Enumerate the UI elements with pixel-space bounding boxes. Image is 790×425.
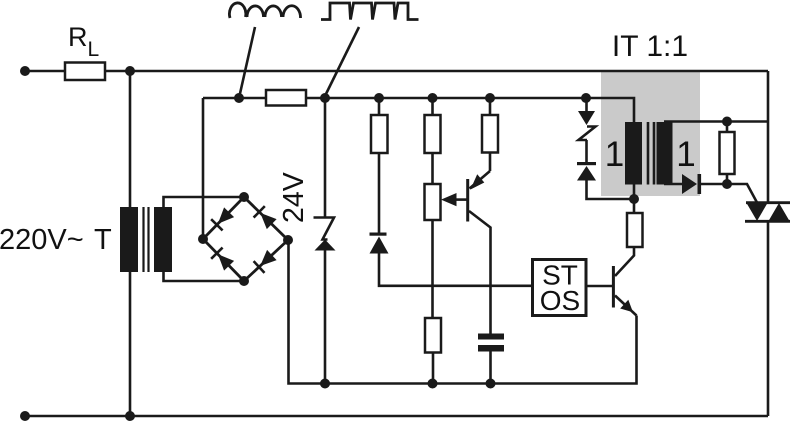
- node sawtooth tap / zener top: [320, 93, 330, 103]
- label 24V: [278, 172, 310, 223]
- wire R4 bottom: [432, 353, 435, 384]
- potentiometer body: [425, 184, 441, 220]
- node branch R2: [428, 93, 438, 103]
- wire zener branch top: [324, 98, 327, 218]
- node coil tap: [234, 93, 244, 103]
- node junction top of primary: [125, 66, 135, 76]
- resistor R3: [482, 115, 498, 153]
- triac left triangle: [747, 203, 768, 221]
- transistor Q2 collector lead: [615, 247, 634, 276]
- sawtooth pointer line: [324, 27, 359, 98]
- wire potentiometer to R4: [431, 220, 434, 318]
- zener diode 24V triangle: [315, 240, 336, 251]
- label RL: [68, 22, 99, 61]
- transformer T primary winding: [120, 207, 138, 272]
- wire bottom bus: [25, 415, 768, 418]
- resistor RL: [65, 63, 105, 81]
- wire D1 to ST-OS input: [379, 254, 533, 286]
- wire IT secondary top rail: [664, 120, 768, 123]
- potentiometer wiper arrow: [441, 193, 457, 206]
- resistor R5: [627, 213, 643, 247]
- node input terminal bottom: [20, 411, 30, 421]
- svg-text:1: 1: [676, 135, 695, 174]
- wire DC return rail: [289, 240, 637, 384]
- capacitor C1 bottom plate: [478, 345, 504, 352]
- node branch R1: [374, 93, 384, 103]
- wire diode to gate: [701, 184, 757, 203]
- wire R1 stub: [378, 98, 381, 115]
- wire IT secondary bottom: [664, 183, 682, 186]
- transistor Q1 base bar: [466, 179, 469, 222]
- svg-text:L: L: [88, 38, 100, 61]
- wire bridge plus lead: [202, 98, 205, 239]
- node bridge right: [283, 235, 293, 245]
- label IT secondary ratio 1: [676, 135, 695, 174]
- transformer IT secondary winding: [657, 122, 673, 185]
- node R2 branch bottom: [428, 379, 438, 389]
- triac bottom bar: [745, 220, 790, 223]
- triac right triangle: [769, 203, 790, 221]
- node gate resistor bottom: [722, 179, 732, 189]
- bridge diode top-left: [211, 207, 235, 231]
- resistor R4: [425, 318, 441, 353]
- diode D1 triangle: [370, 237, 389, 254]
- node bridge bottom: [239, 276, 249, 286]
- resistor on supply bus: [266, 90, 306, 106]
- wire R6 stubs: [726, 122, 729, 185]
- trigger module ST OS box: [533, 260, 587, 316]
- node junction bottom of primary: [125, 411, 135, 421]
- bridge diode top-right: [254, 206, 278, 230]
- bridge diode bottom-left: [211, 248, 235, 272]
- wire right vertical to triac: [767, 71, 770, 416]
- capacitor C1 top plate: [478, 334, 504, 340]
- svg-text:R: R: [68, 22, 88, 52]
- node zener bottom: [320, 379, 330, 389]
- diode D2 cathode bar: [698, 174, 702, 194]
- wire R2 to potentiometer: [431, 153, 434, 184]
- diode D2 triangle: [682, 174, 697, 194]
- svg-text:1: 1: [605, 135, 624, 174]
- transistor Q2 emitter arrow: [620, 300, 633, 313]
- resistor R6: [720, 132, 735, 174]
- wire R1 to diode: [378, 153, 381, 233]
- wire diode stack to IT primary bottom: [587, 181, 635, 200]
- label IT primary ratio 1: [605, 135, 624, 174]
- transistor Q1 emitter arrow: [471, 174, 485, 189]
- node bridge top: [239, 192, 249, 202]
- transistor Q1 emitter lead: [470, 171, 491, 189]
- wire between stack diodes: [585, 98, 588, 164]
- sawtooth waveform symbol: [321, 3, 419, 20]
- wire zener branch bottom: [324, 251, 327, 384]
- wire secondary bottom to bridge: [164, 272, 245, 281]
- wire R3 to emitter: [489, 153, 492, 172]
- node branch rectifier stack: [581, 93, 591, 103]
- resistor R2: [425, 115, 441, 153]
- zener diode stack upper triangle: [578, 111, 595, 125]
- svg-text:IT 1:1: IT 1:1: [612, 30, 688, 63]
- inductor pointer line: [239, 27, 255, 98]
- triac top bar: [746, 201, 790, 204]
- diode D1 cathode bar: [370, 233, 387, 236]
- wire secondary top to bridge: [164, 197, 245, 207]
- wire left vertical primary branch: [129, 71, 132, 416]
- transistor Q2 emitter lead: [615, 296, 637, 316]
- wire top bus: [25, 70, 768, 73]
- transformer IT primary winding: [625, 122, 642, 185]
- node branch R3: [485, 93, 495, 103]
- transistor Q2 base bar: [612, 266, 615, 308]
- transformer IT core: [648, 122, 654, 185]
- wire R3 stub: [489, 98, 492, 115]
- wire capacitor bottom: [489, 352, 492, 384]
- wire IT primary bottom stub: [633, 185, 636, 214]
- inductor symbol: [229, 3, 300, 18]
- svg-text:24V: 24V: [278, 172, 310, 223]
- diode stack lower bar: [577, 162, 596, 165]
- zener diode 24V cathode bar: [314, 218, 335, 240]
- label IT 1:1: [612, 30, 688, 63]
- transistor Q1 collector lead: [469, 211, 491, 334]
- node IT primary bottom: [629, 194, 639, 204]
- node bridge left: [198, 234, 208, 244]
- transformer T secondary winding: [154, 207, 172, 272]
- wire ST-OS output to Q2 base: [586, 285, 613, 288]
- label 220V~ T: [0, 224, 112, 256]
- bridge diode bottom-right: [254, 249, 278, 273]
- diode stack lower triangle: [577, 166, 596, 181]
- bridge rectifier arms: [203, 197, 288, 281]
- transistor Q1 base wire: [454, 198, 467, 201]
- zener diode stack upper bar: [579, 127, 596, 141]
- svg-text:T: T: [94, 224, 112, 256]
- wire DC supply bus: [203, 98, 634, 122]
- wire R2 stub: [431, 98, 434, 115]
- svg-text:220V~: 220V~: [0, 224, 84, 256]
- label ST OS: [540, 260, 580, 317]
- isolation transformer shaded region: [601, 72, 700, 196]
- transformer T core: [144, 207, 149, 272]
- node input terminal top: [20, 66, 30, 76]
- node gate resistor top: [722, 117, 732, 127]
- svg-text:OS: OS: [540, 285, 580, 316]
- node capacitor bottom: [486, 379, 496, 389]
- resistor R1: [371, 115, 388, 153]
